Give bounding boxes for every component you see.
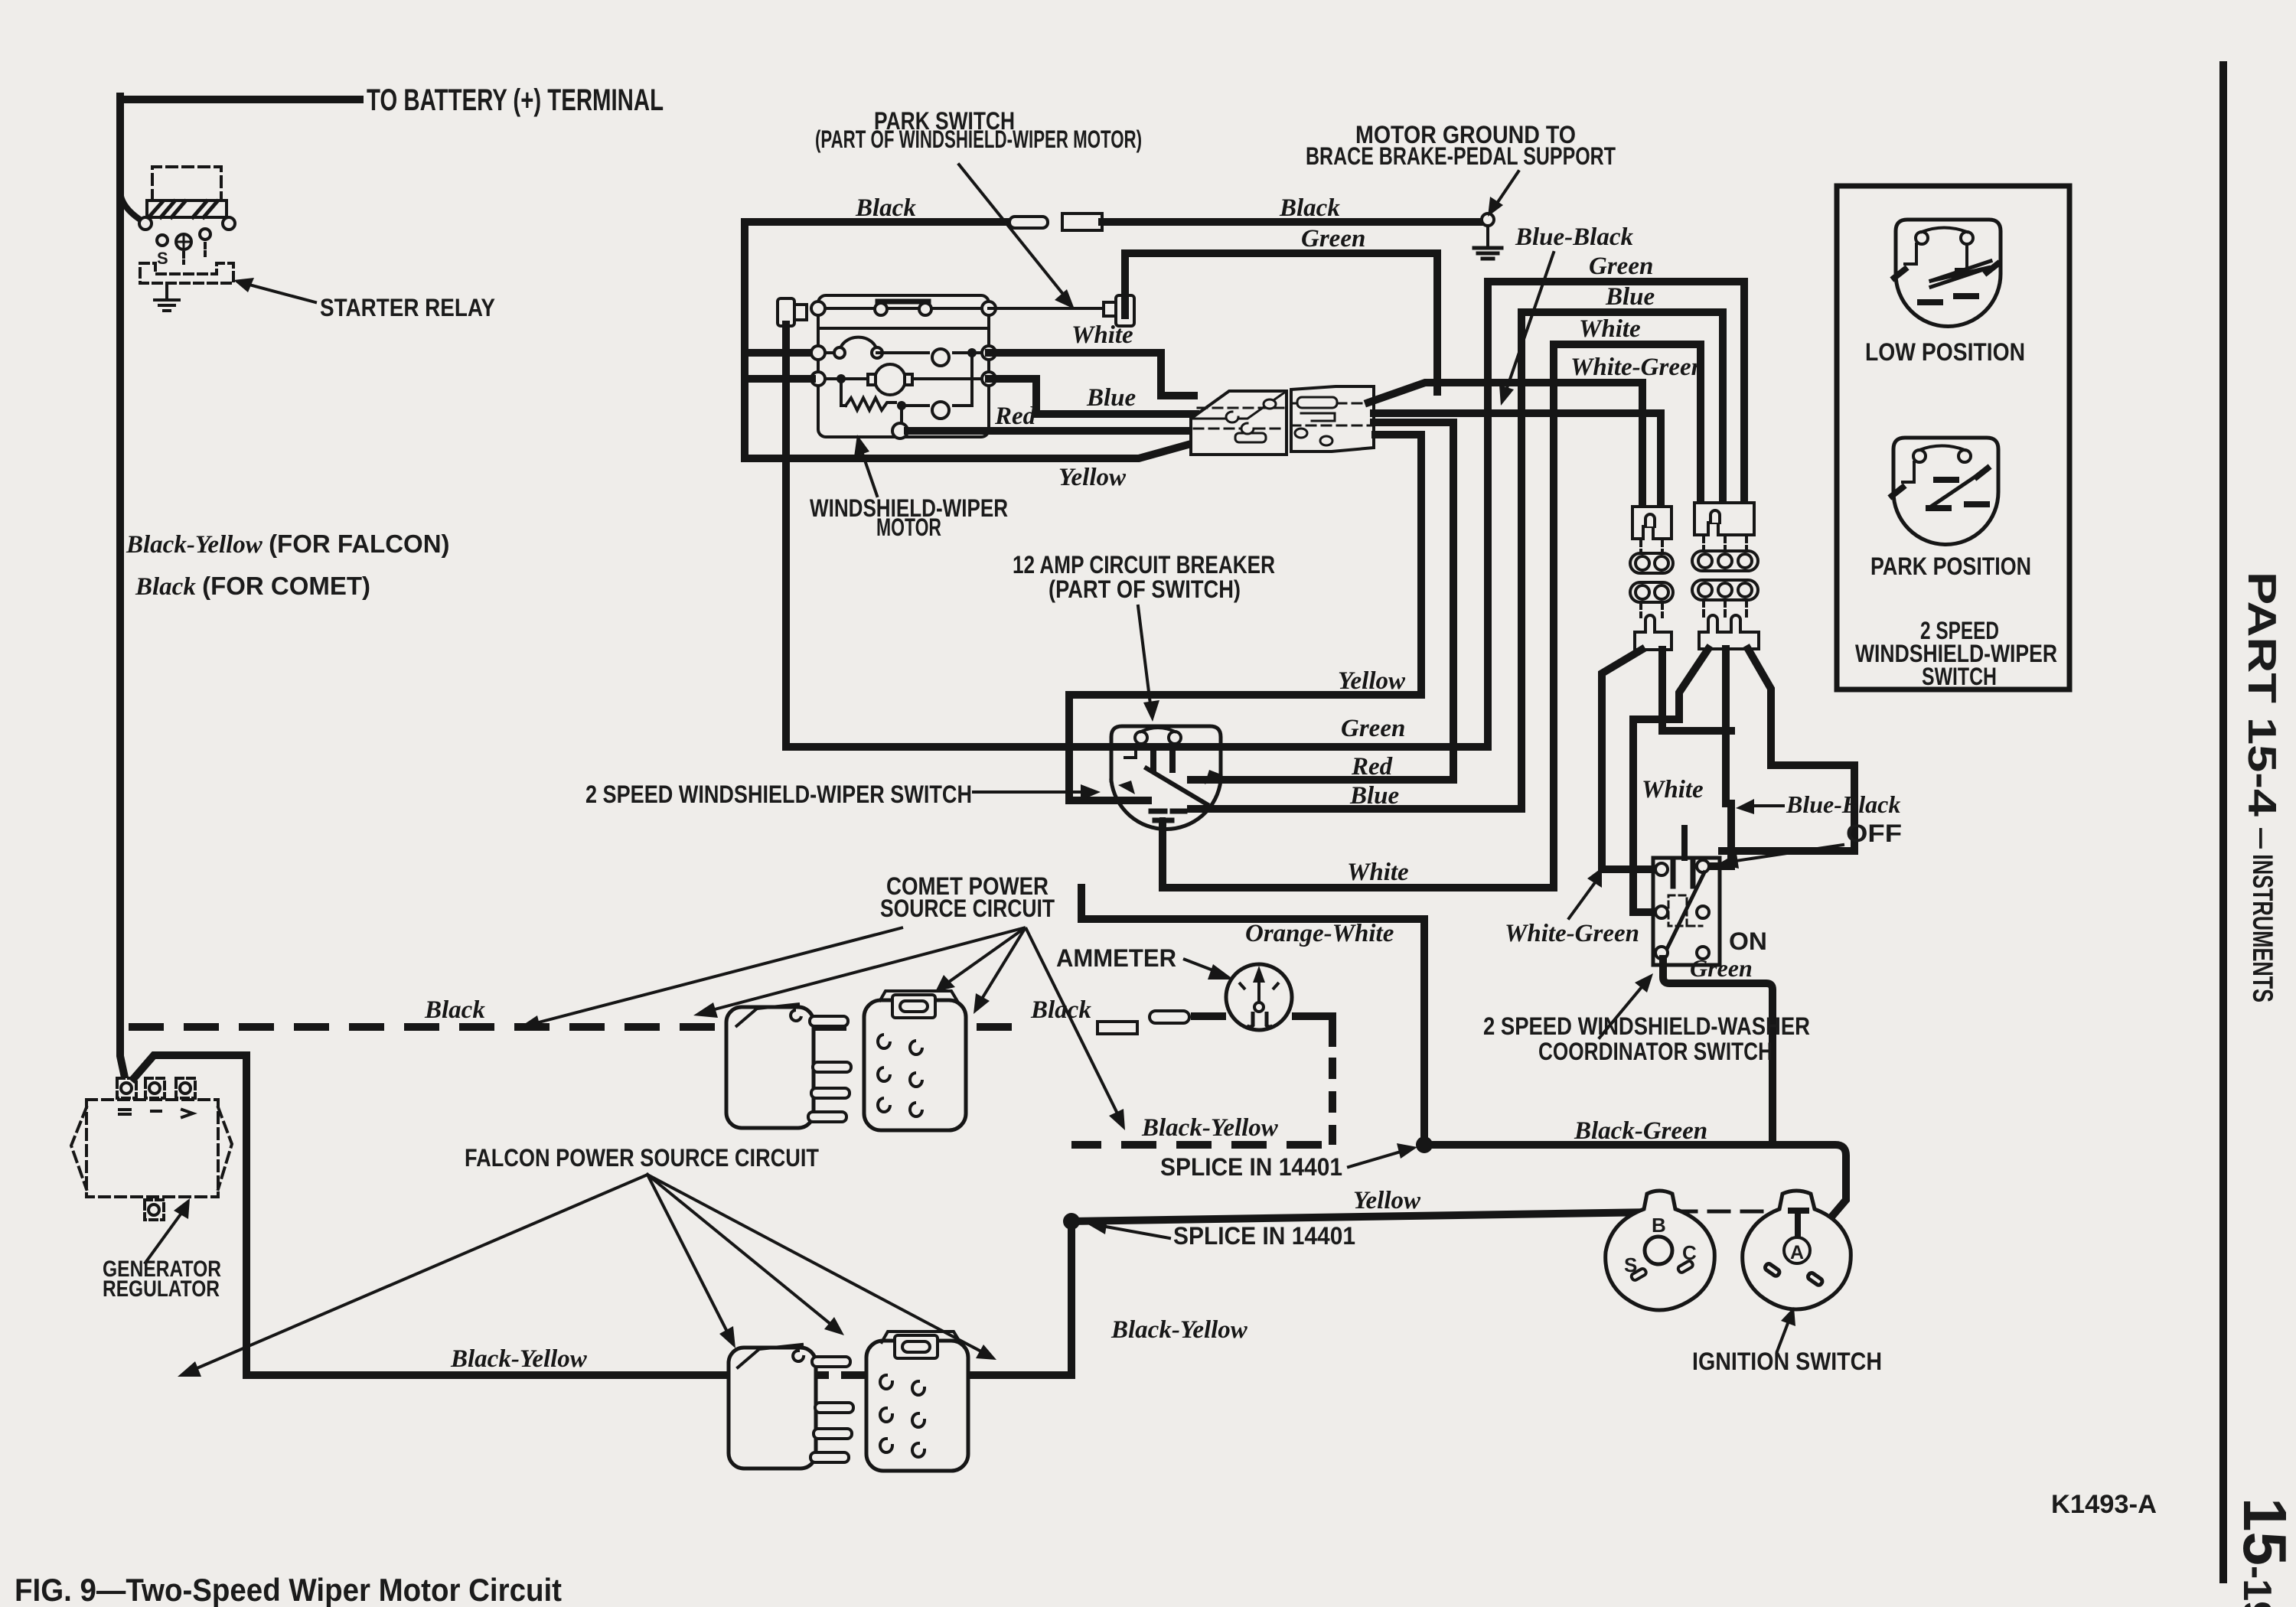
svg-text:(PART OF SWITCH): (PART OF SWITCH) xyxy=(1049,575,1241,603)
coordinator actuator stem xyxy=(1681,828,1688,858)
wire white-green from connector diagonal xyxy=(1368,383,1642,501)
2-pin connector stack bottom block xyxy=(1635,615,1671,650)
wire white bracket: switch to 3-pin stack xyxy=(1554,344,1701,888)
2-pin ring terminals row 1 xyxy=(1630,553,1673,573)
svg-text:B: B xyxy=(1652,1214,1666,1237)
wire black-yellow dashed through falcon connectors xyxy=(735,1371,972,1379)
motor resistor row xyxy=(841,353,972,438)
svg-text:Orange-White: Orange-White xyxy=(1245,920,1394,947)
wire yellow from connector down to switch run xyxy=(1375,435,1421,695)
motor left plug connector xyxy=(778,298,807,326)
wire orange-white run xyxy=(1081,888,1424,919)
inline connector before ammeter xyxy=(1097,1022,1137,1034)
svg-text:Blue-Black: Blue-Black xyxy=(1515,223,1633,251)
svg-text:SOURCE CIRCUIT: SOURCE CIRCUIT xyxy=(880,895,1055,922)
svg-text:Black-Yellow (FOR FALCON): Black-Yellow (FOR FALCON) xyxy=(126,530,450,559)
2-pin ring terminals row 2 xyxy=(1630,582,1673,602)
wire black: connector to motor ground point xyxy=(1102,218,1483,226)
svg-text:K1493-A: K1493-A xyxy=(2051,1490,2157,1519)
svg-text:COORDINATOR SWITCH: COORDINATOR SWITCH xyxy=(1538,1038,1773,1065)
connector half left (male) xyxy=(1191,391,1287,455)
wire blue from motor to connector xyxy=(989,379,1195,414)
wire black-yellow dashed to splice vertical xyxy=(1071,1141,1322,1149)
wire blue bracket: switch to 3-pin stack xyxy=(1521,312,1723,809)
falcon connector female xyxy=(866,1332,968,1471)
wire green from motor park plug up and right xyxy=(1125,253,1437,392)
connector half right (female) xyxy=(1291,386,1374,451)
svg-text:Green: Green xyxy=(1690,954,1753,982)
svg-text:Black: Black xyxy=(1279,194,1340,222)
svg-text:SWITCH: SWITCH xyxy=(1922,663,1997,690)
svg-text:SPLICE IN 14401: SPLICE IN 14401 xyxy=(1173,1222,1355,1250)
3-pin connector stack top block xyxy=(1694,503,1754,535)
wire black-yellow right of falcon connectors up to splice xyxy=(972,1221,1071,1375)
wire green bracket: switch to 3-pin stack xyxy=(1488,282,1744,747)
wire yellow from splice 2 to ignition switch xyxy=(1071,1212,1653,1221)
svg-text:STARTER RELAY: STARTER RELAY xyxy=(320,294,495,321)
svg-text:A: A xyxy=(1790,1242,1804,1263)
wire green run through switch xyxy=(786,324,1488,747)
wire from ammeter right, corner down dashed to junction xyxy=(1292,1016,1332,1047)
svg-text:S: S xyxy=(157,249,168,268)
svg-text:Black-Yellow: Black-Yellow xyxy=(1141,1114,1279,1142)
svg-text:Black-Green: Black-Green xyxy=(1574,1117,1707,1145)
svg-text:FALCON POWER SOURCE CIRCUIT: FALCON POWER SOURCE CIRCUIT xyxy=(465,1144,819,1172)
svg-text:TO BATTERY (+) TERMINAL: TO BATTERY (+) TERMINAL xyxy=(367,83,664,117)
svg-text:White: White xyxy=(1347,859,1409,886)
wire yellow from motor to connector xyxy=(745,348,1191,458)
svg-text:BRACE BRAKE-PEDAL SUPPORT: BRACE BRAKE-PEDAL SUPPORT xyxy=(1306,142,1616,170)
svg-text:S: S xyxy=(1624,1253,1637,1276)
generator regulator xyxy=(71,1078,232,1220)
wire white from motor to connector xyxy=(989,353,1194,396)
inline connector on black wire xyxy=(1009,214,1102,230)
svg-text:Black-Yellow: Black-Yellow xyxy=(1110,1316,1248,1344)
svg-text:Yellow: Yellow xyxy=(1058,464,1127,491)
wire main left vertical from battery to generator regulator xyxy=(120,96,125,1077)
motor right plug connector xyxy=(989,295,1134,326)
motor armature row xyxy=(811,364,996,395)
comet connector female xyxy=(864,991,966,1130)
svg-text:12 AMP CIRCUIT BREAKER: 12 AMP CIRCUIT BREAKER xyxy=(1013,551,1275,579)
svg-text:PARK POSITION: PARK POSITION xyxy=(1870,553,2031,580)
svg-text:Black: Black xyxy=(424,996,485,1024)
svg-text:MOTOR: MOTOR xyxy=(876,513,941,541)
wire stub to starter relay terminal xyxy=(120,191,140,220)
svg-text:Yellow: Yellow xyxy=(1338,667,1406,695)
svg-text:Blue-Black: Blue-Black xyxy=(1786,790,1900,818)
svg-text:SPLICE IN 14401: SPLICE IN 14401 xyxy=(1160,1153,1342,1181)
wire red run to switch xyxy=(1191,776,1453,784)
svg-text:White-Green: White-Green xyxy=(1505,920,1639,947)
wire black-green from splice to ignition xyxy=(1424,1145,1846,1241)
wire black: motor middle-left terminal bracket xyxy=(745,222,1008,353)
motor ground symbol xyxy=(1474,214,1502,259)
svg-text:AMMETER: AMMETER xyxy=(1056,944,1176,972)
svg-text:IGNITION SWITCH: IGNITION SWITCH xyxy=(1692,1348,1882,1375)
splice junction 2 xyxy=(1063,1213,1080,1230)
svg-text:Black (FOR COMET): Black (FOR COMET) xyxy=(135,572,370,601)
falcon connector male xyxy=(729,1345,853,1468)
windshield-wiper motor box xyxy=(818,295,989,437)
svg-text:Blue: Blue xyxy=(1349,782,1399,810)
svg-text:2 SPEED WINDSHIELD-WIPER SWITC: 2 SPEED WINDSHIELD-WIPER SWITCH xyxy=(585,781,972,808)
low position switch glyph xyxy=(1894,220,2001,327)
svg-text:Black: Black xyxy=(855,194,916,222)
wire black dashed between connectors and ammeter xyxy=(811,1023,1026,1031)
falcon label arrows xyxy=(178,1175,996,1377)
svg-text:White: White xyxy=(1071,321,1133,349)
svg-text:REGULATOR: REGULATOR xyxy=(103,1276,220,1302)
svg-text:ON: ON xyxy=(1729,927,1767,955)
ammeter xyxy=(1226,964,1292,1030)
wire blue-black from connector xyxy=(1374,413,1661,501)
3-pin ring terminals row 2 xyxy=(1692,580,1758,600)
svg-text:— INSTRUMENTS: — INSTRUMENTS xyxy=(2247,828,2278,1002)
2 speed switch positions box xyxy=(1837,186,2069,689)
wire black-yellow from regulator up-right and down to bottom run xyxy=(134,1055,729,1375)
wire to ammeter xyxy=(1191,1012,1226,1020)
svg-text:White: White xyxy=(1579,315,1641,343)
svg-text:Red: Red xyxy=(1351,753,1393,781)
wire blue-black from 3-pin stack to coordinator xyxy=(1713,649,1731,866)
coordinator contacts and terminals xyxy=(1655,863,1668,875)
svg-text:Green: Green xyxy=(1341,715,1405,742)
svg-text:FIG. 9—Two-Speed Wiper Motor C: FIG. 9—Two-Speed Wiper Motor Circuit xyxy=(15,1572,562,1607)
motor field winding row xyxy=(811,337,996,366)
svg-text:Yellow: Yellow xyxy=(1353,1187,1421,1214)
ignition switch rear face (A) xyxy=(1743,1191,1851,1309)
label STARTER RELAY with arrow xyxy=(243,283,315,302)
wire white-green from 2-pin stack to coordinator xyxy=(1602,650,1653,869)
park position switch glyph xyxy=(1892,438,1998,544)
coordinator switch body xyxy=(1653,858,1720,965)
svg-text:White-Green: White-Green xyxy=(1570,354,1705,381)
svg-text:PART 15-4: PART 15-4 xyxy=(2239,572,2284,817)
wire white from 3-pin stack to coordinator xyxy=(1633,649,1708,912)
svg-text:(PART OF WINDSHIELD-WIPER MOTO: (PART OF WINDSHIELD-WIPER MOTOR) xyxy=(815,125,1142,153)
wire to battery (+) terminal horizontal xyxy=(120,96,360,103)
2 speed windshield-wiper switch body xyxy=(1111,726,1223,830)
splice junction 1 xyxy=(1416,1136,1433,1153)
3-pin connector stack bottom block xyxy=(1699,615,1759,649)
wire red from connector down to switch run xyxy=(1374,422,1453,780)
ignition switch rear face (B C S) xyxy=(1606,1191,1715,1310)
comet connector male xyxy=(726,1004,851,1128)
comet label arrows xyxy=(519,927,1125,1130)
svg-text:Green: Green xyxy=(1301,225,1365,253)
svg-text:White: White xyxy=(1642,776,1704,803)
svg-text:2 SPEED WINDSHIELD-WASHER: 2 SPEED WINDSHIELD-WASHER xyxy=(1483,1012,1810,1040)
svg-text:Blue: Blue xyxy=(1086,384,1136,412)
svg-text:Green: Green xyxy=(1589,253,1653,280)
wire blue run to switch xyxy=(1191,805,1521,813)
svg-text:C: C xyxy=(1682,1241,1697,1264)
2-pin connector stack top block xyxy=(1632,507,1671,539)
svg-text:Red: Red xyxy=(994,403,1036,430)
motor park switch row xyxy=(811,302,996,328)
sidebar rule xyxy=(2219,65,2227,1579)
wire orange-white vertical to splice xyxy=(1420,919,1428,1145)
wire green from coordinator bottom xyxy=(1663,959,1773,1145)
3-pin ring terminals row 1 xyxy=(1692,551,1758,571)
svg-text:LOW POSITION: LOW POSITION xyxy=(1865,338,2025,366)
wire yellow run to switch xyxy=(1069,695,1421,800)
svg-text:Blue: Blue xyxy=(1605,283,1655,311)
wire white run to switch stem xyxy=(1163,823,1554,888)
wire red from motor bottom terminal to connector xyxy=(908,427,1191,435)
wire from 2-pin stack right pin down xyxy=(1662,650,1731,731)
svg-text:Black-Yellow: Black-Yellow xyxy=(450,1345,588,1373)
svg-text:OFF: OFF xyxy=(1846,820,1902,847)
starter relay xyxy=(139,167,235,311)
wire black dashed from main vertical to comet connectors xyxy=(129,1023,719,1031)
wire from 3-pin stack right pin jog right xyxy=(1722,649,1854,851)
